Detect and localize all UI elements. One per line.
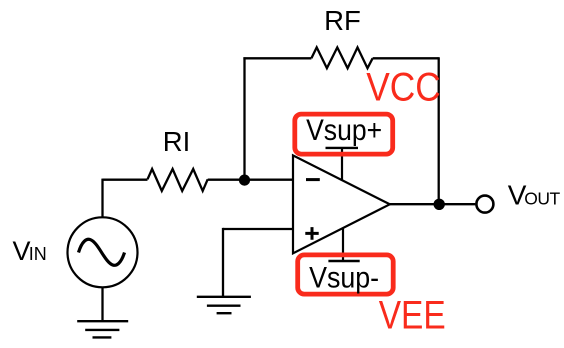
wire: positive supply pin vertical xyxy=(341,148,343,181)
node A junction dot (inverting input node) xyxy=(239,175,250,186)
pin label plus (non-inverting input) xyxy=(305,227,318,240)
wire: VIN vertical lead to source xyxy=(101,179,103,218)
wire: feedback left vertical from node A up to top rail xyxy=(243,57,245,179)
wire: feedback top horizontal left segment xyxy=(243,57,311,59)
output terminal open circle xyxy=(476,196,493,213)
wire: non-inverting input horizontal xyxy=(223,228,293,230)
annotation box Vsup- xyxy=(298,255,394,294)
node: output junction dot xyxy=(434,199,445,210)
svg-text:RF: RF xyxy=(324,5,361,36)
resistor RF xyxy=(311,47,372,68)
svg-text:IN: IN xyxy=(29,244,47,264)
wire: negative supply pin vertical xyxy=(342,228,344,261)
wire: non-inverting input vertical to ground xyxy=(222,228,224,297)
wire: VIN source to ground lead xyxy=(101,287,103,321)
svg-text:Vsup-: Vsup- xyxy=(309,261,379,294)
svg-text:VEE: VEE xyxy=(379,294,446,338)
negative supply rail bar (Vsup- pin) xyxy=(328,260,359,262)
ground (VIN source) xyxy=(77,321,128,337)
svg-text:VCC: VCC xyxy=(366,66,441,110)
wire: feedback right vertical down to output node xyxy=(438,57,440,204)
svg-text:RI: RI xyxy=(163,126,191,157)
svg-text:Vsup+: Vsup+ xyxy=(306,114,382,147)
op-amp U1 triangle xyxy=(293,155,390,253)
voltage source VIN circle xyxy=(68,217,138,287)
wire: feedback top horizontal right segment xyxy=(373,57,439,59)
svg-text:OUT: OUT xyxy=(524,189,560,209)
wire: from resistor RI to inverting input xyxy=(208,179,293,181)
ground (non-inverting input) xyxy=(197,297,251,313)
voltage source VIN sine symbol xyxy=(79,239,125,265)
wire: input wire from VIN to resistor RI xyxy=(103,179,148,181)
positive supply rail bar (Vsup+ pin) xyxy=(326,147,359,149)
pin label minus (inverting input) xyxy=(306,178,320,181)
annotation box Vsup+ xyxy=(295,114,393,154)
wire: output from op-amp apex to terminal xyxy=(390,203,476,205)
resistor RI xyxy=(148,169,208,191)
